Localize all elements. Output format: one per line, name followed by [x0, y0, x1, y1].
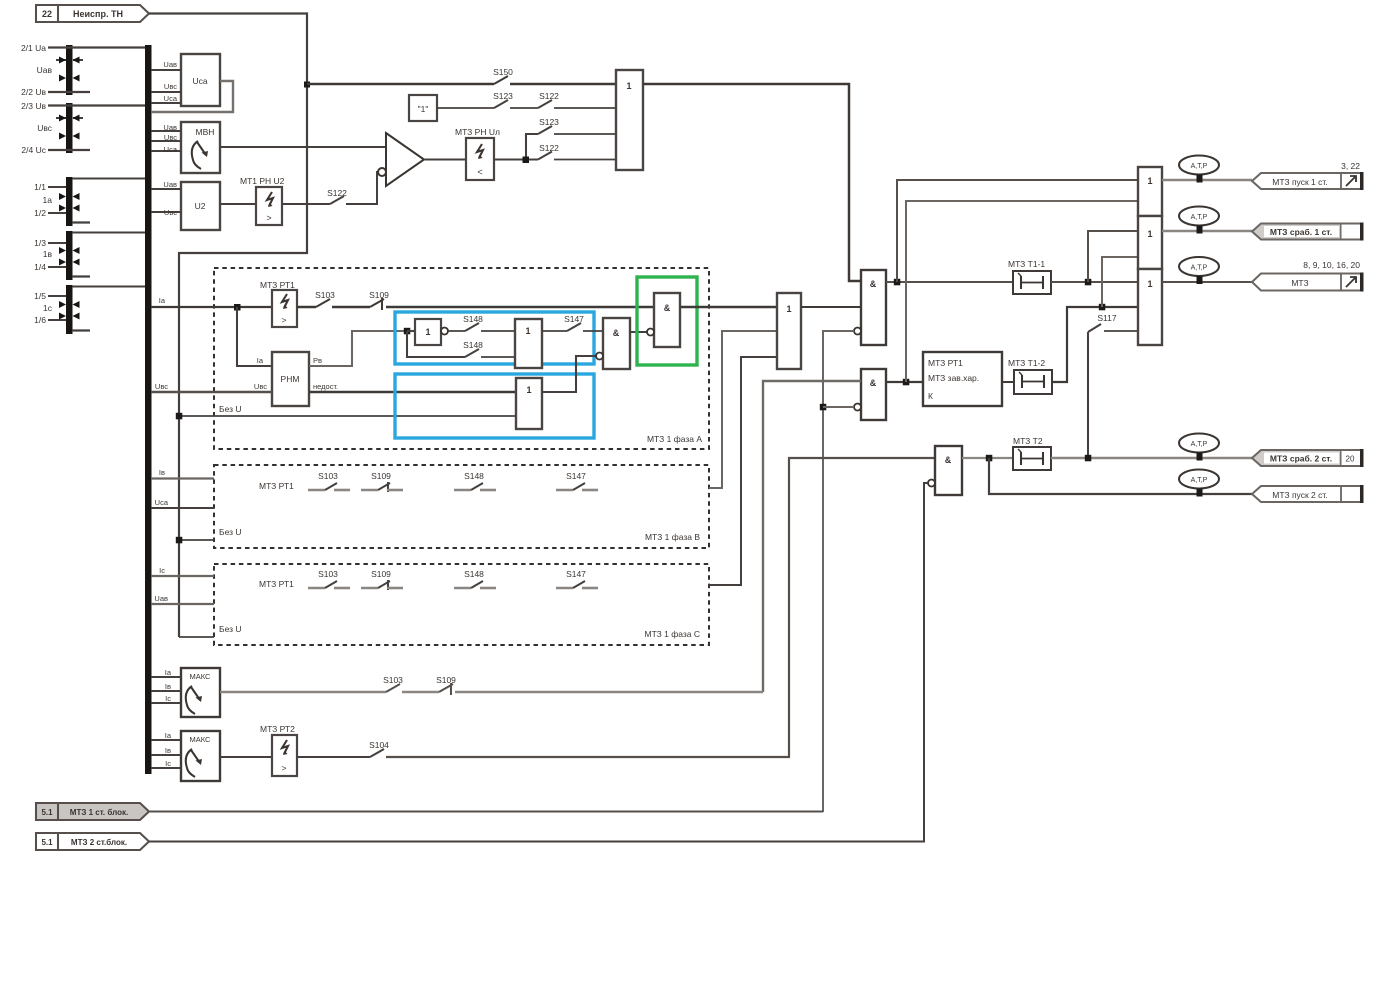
- wire S147 to AND D: [583, 330, 603, 332]
- svg-text:&: &: [664, 303, 671, 313]
- switch S103 blade phase A: [316, 299, 330, 307]
- switch S148 top blade: [465, 323, 479, 331]
- Uса block input stub Uвс: [151, 91, 181, 93]
- blue highlight box upper: [395, 312, 594, 364]
- phase A main row: РТ1 output to S103: [297, 306, 316, 308]
- output flag МТЗ пуск 2 ст.: [1252, 485, 1364, 503]
- svg-text:1с: 1с: [43, 303, 53, 313]
- svg-text:Iв: Iв: [165, 746, 171, 755]
- svg-text:МТЗ РТ2: МТЗ РТ2: [260, 724, 295, 734]
- svg-text:S122: S122: [327, 188, 347, 198]
- svg-text:1/3: 1/3: [34, 238, 46, 248]
- svg-text:S147: S147: [566, 471, 586, 481]
- svg-text:2/4 Uс: 2/4 Uс: [21, 145, 46, 155]
- svg-text:Неиспр. ТН: Неиспр. ТН: [73, 9, 123, 19]
- inverter inverted input circle: [378, 168, 386, 176]
- junction at flag vertical and top OR row: [304, 82, 310, 88]
- phase A main row continue to AND E: [386, 306, 654, 308]
- middle OR output wire to AND1: [801, 306, 861, 308]
- svg-text:РНМ: РНМ: [281, 374, 300, 384]
- МВН input stub Uса: [151, 150, 181, 152]
- svg-text:А,Т,Р: А,Т,Р: [1191, 477, 1208, 484]
- svg-text:3, 22: 3, 22: [1341, 161, 1360, 171]
- timer block МТЗ Т1-1: [1008, 259, 1051, 294]
- CT3 secondary top wire to bus: [72, 286, 145, 288]
- CT2 winding arrows: [59, 247, 80, 266]
- switch S117 blade: [1088, 324, 1101, 332]
- junction blocking to AND2: [820, 404, 827, 411]
- svg-text:1: 1: [786, 304, 791, 314]
- feedback wire lower S148 branch: [407, 331, 465, 357]
- constant "1" block: [409, 95, 437, 121]
- svg-text:А,Т,Р: А,Т,Р: [1191, 214, 1208, 221]
- svg-text:S103: S103: [318, 471, 338, 481]
- wire blocking to AND2 circle: [823, 406, 854, 408]
- svg-text:5.1: 5.1: [41, 838, 53, 847]
- top row wire continue: [510, 83, 616, 86]
- svg-text:S103: S103: [383, 675, 403, 685]
- svg-text:МТЗ сраб. 1 ст.: МТЗ сраб. 1 ст.: [1270, 227, 1332, 237]
- svg-text:МАКС: МАКС: [190, 672, 212, 681]
- Т1-2 output wire up and right to OR-T3: [1052, 307, 1138, 382]
- svg-text:МТЗ 2 ст.блок.: МТЗ 2 ст.блок.: [71, 838, 127, 847]
- CT3 winding arrows: [59, 301, 80, 320]
- svg-text:1: 1: [626, 81, 631, 91]
- phase C switch S147 symbol: [556, 581, 598, 588]
- МАКС1 input stubs: [151, 676, 181, 678]
- relay block МТЗ РН Uл: [455, 127, 500, 180]
- svg-text:1/4: 1/4: [34, 262, 46, 272]
- wire S103 to S109 bottom: [402, 691, 439, 693]
- wire gate B to S147: [542, 330, 567, 332]
- svg-text:S109: S109: [371, 569, 391, 579]
- wire from blocking flag 1: [149, 811, 823, 813]
- CT group 1 core: [66, 177, 73, 226]
- block МТЗ РТ1 зав.хар.: [923, 352, 1002, 406]
- U2 input stub Uав: [151, 188, 181, 190]
- OR gate B: [515, 319, 542, 368]
- svg-text:2/2 Uв: 2/2 Uв: [21, 87, 46, 97]
- svg-text:S147: S147: [564, 314, 584, 324]
- AND gate 2 (inverse time): [854, 369, 886, 420]
- svg-text:МТЗ РН Uл: МТЗ РН Uл: [455, 127, 500, 137]
- OR top output wire down to AND1: [643, 84, 861, 281]
- svg-text:20: 20: [1346, 455, 1355, 464]
- junction Iа: [234, 304, 241, 311]
- svg-text:>: >: [266, 213, 271, 223]
- CT2 input wire 1/3: [48, 242, 66, 244]
- svg-text:Uвс: Uвс: [155, 382, 168, 391]
- test point ellipse А,Т,Р (МТЗ): [1179, 257, 1219, 284]
- switch S122 blade: [330, 196, 344, 204]
- wire between S123 and S122 row2: [510, 107, 538, 109]
- svg-text:1: 1: [1147, 229, 1152, 239]
- МАКС block 2: [181, 731, 220, 781]
- wire S117 into OR-T3: [1104, 330, 1138, 332]
- wire S103 to S109: [332, 306, 370, 308]
- AND1 output wire to Т1-1: [886, 281, 1013, 283]
- row4 wire from МТЗ РН Uл output: [494, 158, 538, 160]
- switch S122 blade row2: [538, 100, 552, 108]
- wire gate A output to S148 top: [448, 330, 465, 332]
- svg-text:>: >: [282, 763, 287, 773]
- svg-text:"1": "1": [418, 104, 429, 114]
- svg-text:1: 1: [526, 385, 531, 395]
- svg-text:Рв: Рв: [313, 356, 322, 365]
- wire Uвс from bus to РНМ: [151, 391, 272, 393]
- svg-text:МВН: МВН: [196, 127, 215, 137]
- VT2 top wire 2/3 Uв: [48, 104, 145, 106]
- svg-text:Uвс: Uвс: [37, 123, 53, 133]
- branch wire down to РНМ Iа input: [237, 307, 272, 366]
- wire Без U input phase B: [179, 539, 214, 541]
- relay block МТЗ РТ1 (phase A): [260, 280, 297, 327]
- svg-text:Iс: Iс: [165, 759, 171, 768]
- wire S148 top to gate B: [481, 330, 515, 332]
- AND gate D: [596, 318, 630, 369]
- OR gate T2 (сраб. 1 ст.): [1138, 216, 1162, 269]
- svg-text:1/2: 1/2: [34, 208, 46, 218]
- phase A output wire from AND E to middle OR: [680, 306, 777, 308]
- svg-text:1/1: 1/1: [34, 182, 46, 192]
- svg-text:недост.: недост.: [313, 382, 338, 391]
- svg-text:S109: S109: [369, 290, 389, 300]
- МАКС1 output wire: [220, 691, 386, 693]
- svg-text:S122: S122: [539, 143, 559, 153]
- svg-text:МТЗ 1 фаза А: МТЗ 1 фаза А: [647, 434, 702, 444]
- svg-text:Без U: Без U: [219, 527, 242, 537]
- svg-text:22: 22: [42, 9, 52, 19]
- Uса block input stub Uса: [151, 102, 181, 104]
- VT2 winding arrows: [56, 115, 83, 140]
- timer block МТЗ Т2: [1013, 436, 1051, 470]
- junction on row4: [523, 157, 530, 164]
- phase B switch S109 symbol: [361, 482, 403, 492]
- svg-text:1/5: 1/5: [34, 291, 46, 301]
- wire Iв input phase B: [151, 477, 214, 479]
- svg-text:S150: S150: [493, 67, 513, 77]
- phase C output wire up to middle OR: [709, 357, 777, 585]
- svg-text:МТЗ РТ1: МТЗ РТ1: [259, 579, 294, 589]
- Uса output feedback loop wire: [151, 81, 233, 112]
- svg-text:8, 9, 10, 16, 20: 8, 9, 10, 16, 20: [1303, 260, 1360, 270]
- svg-text:А,Т,Р: А,Т,Р: [1191, 163, 1208, 170]
- svg-text:&: &: [945, 455, 952, 465]
- svg-text:Iв: Iв: [165, 682, 171, 691]
- wire S148 bottom to gate B: [481, 356, 515, 358]
- OR-T2 output wire: [1162, 230, 1252, 232]
- switch S123 blade row3: [538, 126, 552, 134]
- CT3 input wire 1/6: [48, 319, 66, 321]
- РНМ output Рв wire up into blue box: [309, 331, 407, 366]
- test point ellipse А,Т,Р (пуск 1 ст.): [1179, 156, 1219, 183]
- switch S103 blade bottom: [386, 684, 400, 692]
- wire S104 to riser and up to AND3: [386, 458, 935, 757]
- wire from blocking flag 2 up to AND3: [149, 483, 928, 842]
- svg-text:S109: S109: [436, 675, 456, 685]
- AND gate E: [647, 293, 680, 347]
- svg-text:Uвс: Uвс: [254, 382, 267, 391]
- phase C dashed box: [214, 564, 709, 645]
- svg-text:Iа: Iа: [257, 356, 264, 365]
- svg-text:5.1: 5.1: [41, 808, 53, 817]
- blocking line stage1 from flag up to AND1/AND2: [823, 331, 854, 812]
- wire const to S123: [437, 107, 494, 109]
- svg-text:S103: S103: [315, 290, 335, 300]
- output flag МТЗ сраб. 2 ст. 20: [1252, 449, 1364, 467]
- CT1 bottom stub: [72, 221, 90, 223]
- CT2 secondary top wire to bus: [72, 232, 145, 234]
- wire Без U input phase C: [179, 636, 214, 638]
- svg-text:S104: S104: [369, 740, 389, 750]
- Т1-1 output wire to OR-T3: [1051, 281, 1138, 283]
- gate C output wire up to AND D inverted input: [542, 356, 599, 392]
- switch S109 blade bottom: [439, 684, 453, 692]
- inverter output wire: [424, 158, 466, 160]
- РНМ directional block: [272, 352, 309, 406]
- NOT gate A (1 with circle): [415, 319, 448, 345]
- МАКС1 row vertical up to AND2 input: [763, 381, 861, 692]
- junction Без U phase A: [176, 413, 183, 420]
- svg-text:Uса: Uса: [192, 76, 207, 86]
- OR-T1 output wire: [1162, 179, 1252, 181]
- phase B switch S103 symbol: [308, 483, 350, 490]
- svg-text:МТ1 РН U2: МТ1 РН U2: [240, 176, 285, 186]
- МВН output wire to inverter: [220, 146, 386, 148]
- svg-text:МТЗ 1 фаза С: МТЗ 1 фаза С: [644, 629, 700, 639]
- wire Uса input phase B: [151, 507, 214, 509]
- svg-text:МТЗ пуск 1 ст.: МТЗ пуск 1 ст.: [1272, 177, 1327, 187]
- blue highlight box lower: [395, 374, 594, 438]
- AND D output to AND E inverted input: [630, 331, 647, 333]
- svg-text:Uса: Uса: [164, 94, 178, 103]
- wire row2 into OR: [554, 107, 616, 109]
- svg-text:МТЗ пуск 2 ст.: МТЗ пуск 2 ст.: [1272, 490, 1327, 500]
- relay block МТ1 РН U2: [240, 176, 285, 225]
- phase A dashed box: [214, 268, 709, 449]
- svg-text:Uвс: Uвс: [164, 82, 177, 91]
- S117 branch from Т2 output up: [1087, 332, 1089, 458]
- svg-text:S147: S147: [566, 569, 586, 579]
- phase B switch S147 symbol: [556, 483, 598, 490]
- svg-text:Iс: Iс: [159, 566, 165, 575]
- CT1 secondary top wire to bus: [72, 178, 145, 180]
- phase C switch S103 symbol: [308, 581, 350, 588]
- МАКС2 output wire to РТ2: [220, 756, 272, 758]
- test point ellipse А,Т,Р (пуск 2 ст.): [1179, 470, 1219, 497]
- svg-text:МТЗ РТ1: МТЗ РТ1: [928, 358, 963, 368]
- svg-text:2/3 Uв: 2/3 Uв: [21, 101, 46, 111]
- VT1 top wire 2/1 Ua: [48, 46, 145, 48]
- svg-text:S103: S103: [318, 569, 338, 579]
- wire МТ1 РН U2 output through S122 up to inverter inverted input: [282, 203, 330, 205]
- switch S148 bottom blade: [465, 349, 479, 357]
- CT3 bottom stub: [72, 329, 90, 331]
- svg-text:Uав: Uав: [163, 123, 177, 132]
- output flag МТЗ сраб. 1 ст.: [1252, 223, 1364, 241]
- svg-text:МТЗ Т1-1: МТЗ Т1-1: [1008, 259, 1045, 269]
- junction on Т1-2 branch: [1099, 304, 1106, 311]
- svg-text:А,Т,Р: А,Т,Р: [1191, 441, 1208, 448]
- blocking flag МТЗ 1 ст. блок.: [36, 803, 149, 820]
- svg-text:Uвс: Uвс: [164, 208, 177, 217]
- svg-text:Iа: Iа: [159, 296, 166, 305]
- OR gate T3 (МТЗ): [1138, 269, 1162, 345]
- wire U2 to МТ1 РН U2: [220, 203, 256, 205]
- AND3 output wire to Т2: [962, 457, 1013, 459]
- svg-text:А,Т,Р: А,Т,Р: [1191, 265, 1208, 272]
- svg-text:К: К: [928, 391, 933, 401]
- МАКС block 1: [181, 668, 220, 717]
- svg-text:Uав: Uав: [37, 65, 53, 75]
- svg-text:&: &: [870, 378, 877, 388]
- CT group 2 core: [66, 231, 73, 280]
- svg-text:Без U: Без U: [219, 404, 242, 414]
- svg-text:2/1 Uа: 2/1 Uа: [21, 43, 46, 53]
- VT1 winding arrows: [56, 57, 83, 82]
- svg-text:МТЗ сраб. 2 ст.: МТЗ сраб. 2 ст.: [1270, 454, 1332, 464]
- Без U wire phase A: [179, 415, 516, 417]
- test point ellipse А,Т,Р (сраб. 1 ст.): [1179, 207, 1219, 234]
- svg-text:1а: 1а: [43, 195, 53, 205]
- РТ2 output wire to S104: [297, 756, 370, 758]
- CT3 input wire 1/5: [48, 295, 66, 297]
- svg-text:Iа: Iа: [165, 668, 172, 677]
- OR-T3 output wire: [1162, 281, 1252, 283]
- svg-text:МТЗ Т2: МТЗ Т2: [1013, 436, 1043, 446]
- svg-text:S148: S148: [463, 340, 483, 350]
- relay block МТЗ РТ2: [260, 724, 297, 776]
- switch S104 blade: [370, 749, 384, 757]
- svg-text:<: <: [477, 167, 482, 177]
- svg-text:1в: 1в: [43, 249, 53, 259]
- wire row4 into OR: [554, 159, 616, 161]
- phase B switch S148 symbol: [454, 483, 496, 490]
- junction on Т2 output for S117: [1085, 455, 1092, 462]
- junction AND3 output: [986, 455, 993, 462]
- МАКС2 input stubs: [151, 739, 181, 741]
- svg-text:Uав: Uав: [163, 180, 177, 189]
- CT1 input wire 1/2: [48, 212, 66, 214]
- МВН input stub Uав: [151, 130, 181, 132]
- svg-text:МТЗ зав.хар.: МТЗ зав.хар.: [928, 373, 979, 383]
- svg-text:S123: S123: [493, 91, 513, 101]
- МВН block: [181, 122, 220, 173]
- svg-text:Uвс: Uвс: [164, 133, 177, 142]
- svg-text:1: 1: [1147, 279, 1152, 289]
- svg-text:Uав: Uав: [163, 60, 177, 69]
- svg-text:МАКС: МАКС: [190, 735, 212, 744]
- switch S109 blade phase A: [370, 299, 384, 307]
- svg-text:S148: S148: [463, 314, 483, 324]
- svg-text:Iс: Iс: [165, 694, 171, 703]
- svg-text:S117: S117: [1097, 313, 1116, 323]
- junction before gate A: [404, 328, 411, 335]
- svg-text:1/6: 1/6: [34, 315, 46, 325]
- phase B dashed box: [214, 465, 709, 548]
- OR gate top (1): [616, 70, 643, 170]
- Uса block input stub Uав: [151, 69, 181, 71]
- svg-text:МТЗ Т1-2: МТЗ Т1-2: [1008, 358, 1045, 368]
- CT2 input wire 1/4: [48, 266, 66, 268]
- svg-text:S148: S148: [464, 569, 484, 579]
- row3 branch wire from row4 junction: [526, 134, 538, 160]
- svg-text:Iв: Iв: [159, 468, 165, 477]
- wire Iа from bus to МТЗ РТ1: [151, 306, 272, 308]
- svg-text:Iа: Iа: [165, 731, 172, 740]
- phase C switch S148 symbol: [454, 581, 496, 588]
- test point ellipse А,Т,Р (сраб. 2 ст.): [1179, 434, 1219, 461]
- OR gate T1 (пуск 1 ст.): [1138, 167, 1162, 216]
- svg-text:1: 1: [425, 327, 430, 337]
- wire зав.хар. to Т1-2: [1002, 381, 1014, 383]
- РНМ output недост. wire to OR C: [309, 391, 516, 394]
- input flag 22 Неиспр. ТН: [36, 5, 149, 22]
- svg-text:1: 1: [1147, 176, 1152, 186]
- branch down to пуск 2 ст flag: [989, 458, 1252, 494]
- OR gate C (no voltage): [516, 378, 542, 429]
- svg-text:S123: S123: [539, 117, 559, 127]
- wire Uав input phase C: [151, 603, 214, 605]
- AND gate 1 (stage 1): [854, 270, 886, 345]
- svg-text:U2: U2: [195, 201, 206, 211]
- main vertical bus: [145, 45, 152, 774]
- output flag МТЗ: [1252, 273, 1364, 292]
- VT winding group 2 core: [66, 103, 73, 153]
- switch S147 blade: [567, 323, 581, 331]
- svg-text:&: &: [870, 279, 877, 289]
- svg-text:МТЗ 1 ст. блок.: МТЗ 1 ст. блок.: [70, 808, 128, 817]
- switch S150 blade: [494, 76, 508, 84]
- wire Iс input phase C: [151, 575, 214, 577]
- VT winding group 1 core: [66, 45, 73, 95]
- svg-text:МТЗ РТ1: МТЗ РТ1: [260, 280, 295, 290]
- svg-text:>: >: [282, 315, 287, 325]
- inverter triangle: [386, 133, 424, 186]
- junction AND1 output: [894, 279, 901, 286]
- switch S122 blade row4: [538, 152, 552, 160]
- VT1 lower wire 2/2 Uв: [48, 91, 90, 93]
- svg-text:Без U: Без U: [219, 624, 242, 634]
- CT group 3 core: [66, 285, 73, 334]
- svg-text:Uса: Uса: [155, 498, 169, 507]
- svg-text:S122: S122: [539, 91, 559, 101]
- AND gate 3 (stage 2): [928, 446, 962, 495]
- МВН input stub Uвс: [151, 140, 181, 142]
- svg-text:S148: S148: [464, 471, 484, 481]
- svg-text:Uса: Uса: [164, 145, 178, 154]
- branch up to OR-T2 input1: [1088, 231, 1138, 282]
- wire AND2 output up to OR-T1: [906, 201, 1138, 382]
- Uса computation block: [181, 54, 220, 106]
- svg-text:МТЗ РТ1: МТЗ РТ1: [259, 481, 294, 491]
- wire row3 into OR: [554, 133, 616, 135]
- wire S109 to vertical riser: [455, 691, 763, 693]
- output flag МТЗ пуск 1 ст.: [1252, 172, 1364, 190]
- phase B output wire up to middle OR: [709, 331, 777, 488]
- timer block МТЗ Т1-2: [1008, 358, 1052, 394]
- svg-text:S109: S109: [371, 471, 391, 481]
- Т2 output wire to сраб 2 ст flag: [1051, 457, 1252, 459]
- blocking flag МТЗ 2 ст.блок.: [36, 833, 149, 850]
- middle OR gate (3 phases): [777, 293, 801, 369]
- junction on Т1-1 output: [1085, 279, 1092, 286]
- phase C switch S109 symbol: [361, 580, 403, 590]
- top row wire with S150 to OR gate: [307, 83, 494, 86]
- switch S123 blade row2: [494, 100, 508, 108]
- junction AND2 output: [903, 379, 910, 386]
- wire into gate A: [407, 330, 415, 332]
